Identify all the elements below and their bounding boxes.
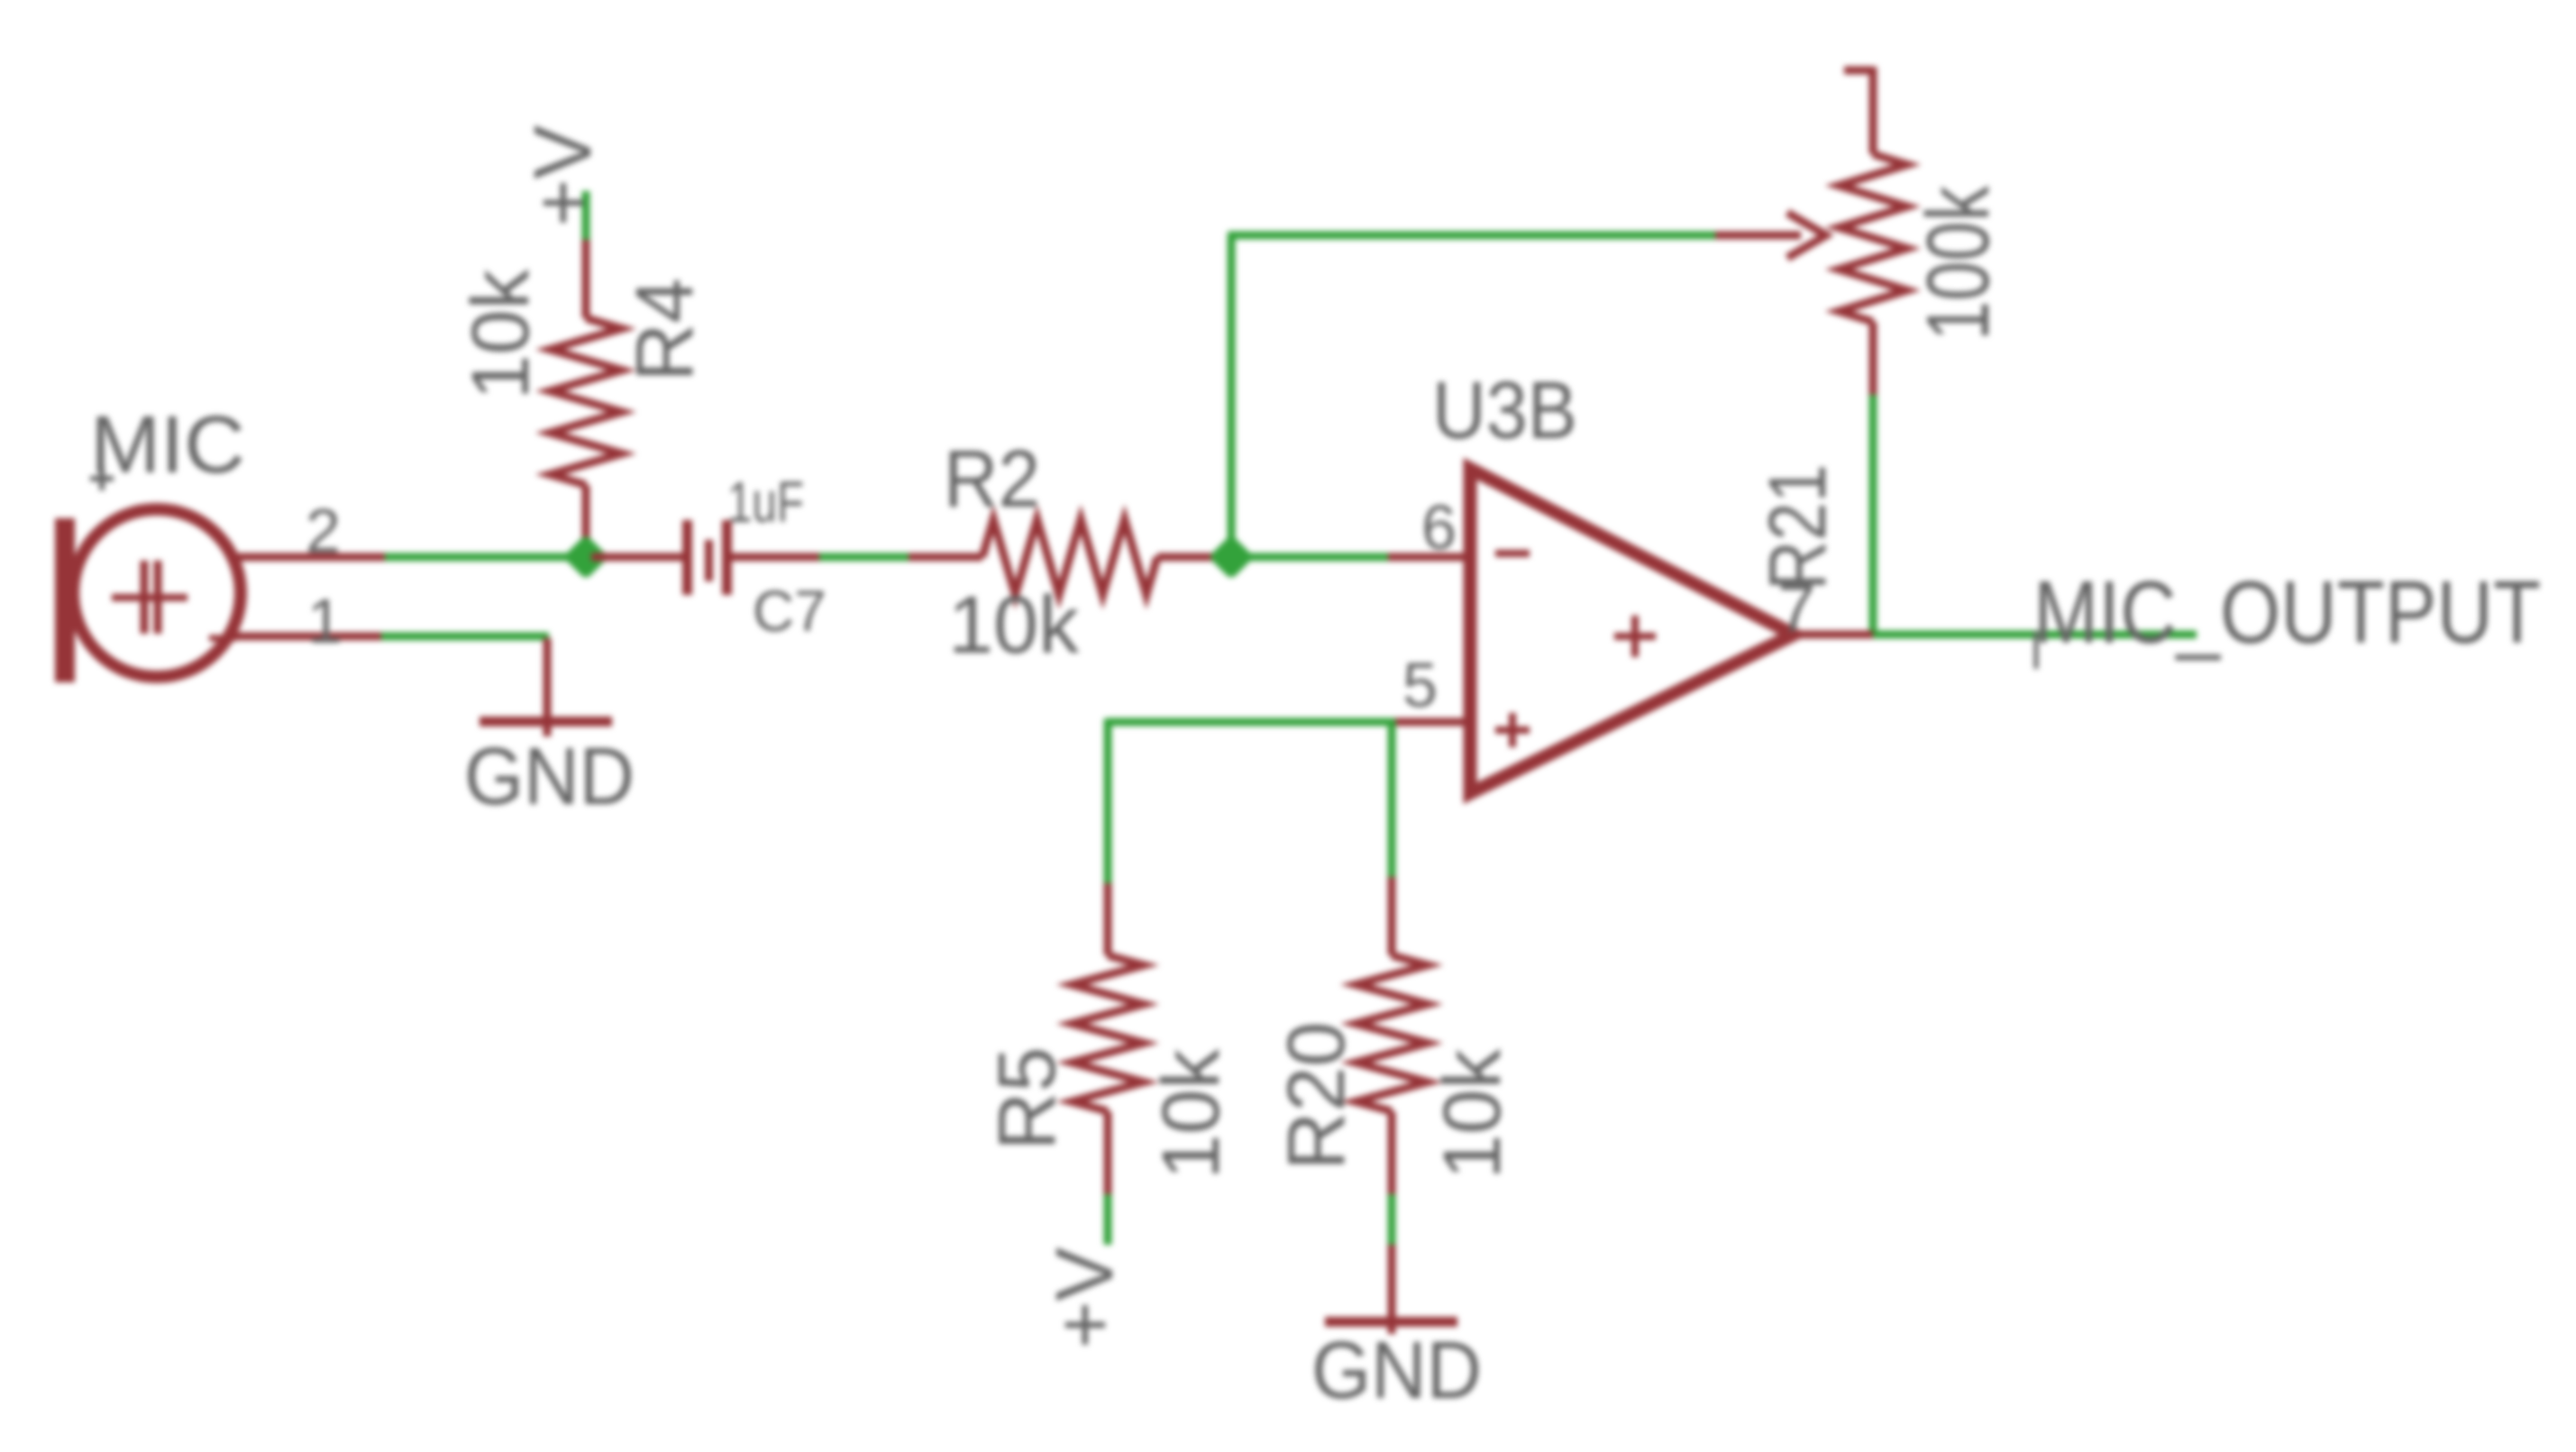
svg-text:R20: R20 [1272, 1021, 1362, 1170]
svg-text:R4: R4 [620, 278, 710, 381]
svg-text:10k: 10k [948, 580, 1080, 671]
svg-text:10k: 10k [456, 268, 546, 399]
svg-text:2: 2 [306, 496, 341, 566]
svg-text:R2: R2 [944, 434, 1040, 525]
svg-text:10k: 10k [1146, 1047, 1237, 1179]
svg-text:6: 6 [1421, 492, 1457, 562]
svg-text:GND: GND [1311, 1326, 1482, 1416]
svg-text:100k: 100k [1908, 185, 2007, 341]
svg-text:5: 5 [1402, 650, 1438, 720]
svg-text:+V: +V [518, 125, 608, 227]
svg-text:R5: R5 [982, 1046, 1073, 1150]
svg-text:+V: +V [1040, 1247, 1130, 1349]
svg-text:1uF: 1uF [727, 470, 804, 534]
svg-text:10k: 10k [1428, 1047, 1518, 1179]
svg-text:C7: C7 [753, 579, 827, 644]
svg-text:1: 1 [307, 586, 343, 656]
svg-text:GND: GND [464, 732, 635, 822]
svg-text:U3B: U3B [1432, 366, 1577, 456]
svg-text:MIC_OUTPUT: MIC_OUTPUT [2033, 562, 2541, 662]
